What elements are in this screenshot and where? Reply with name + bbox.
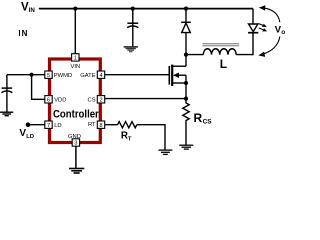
svg-text:R: R xyxy=(194,111,203,125)
svg-text:VDD: VDD xyxy=(54,98,66,104)
svg-text:LD: LD xyxy=(26,134,34,140)
resistor RCS xyxy=(183,99,189,145)
label RT xyxy=(121,131,132,143)
wire down to capacitor C1 xyxy=(6,75,8,91)
node junction PWMD VDD xyxy=(30,73,34,77)
svg-text:7: 7 xyxy=(47,123,50,129)
svg-text:L: L xyxy=(220,57,227,71)
ground for RT xyxy=(158,150,172,154)
pin 3 GND xyxy=(68,134,81,147)
svg-text:RT: RT xyxy=(88,122,96,128)
svg-text:LD: LD xyxy=(54,123,61,129)
ground under RCS xyxy=(179,145,193,149)
arrow VO bottom arc xyxy=(258,37,280,57)
pin 8 RT xyxy=(88,121,105,129)
wire top VIN rail xyxy=(39,8,253,10)
wire pin2 CS to sense node xyxy=(105,98,186,100)
node junction on rail above pin1 xyxy=(73,7,77,11)
ground under C2 xyxy=(124,47,138,52)
node switch node junction xyxy=(184,53,188,57)
svg-text:T: T xyxy=(128,137,132,143)
svg-text:CS: CS xyxy=(88,98,96,104)
svg-text:CS: CS xyxy=(203,119,213,126)
pin 6 VDD xyxy=(45,96,67,104)
svg-text:1: 1 xyxy=(74,56,77,62)
node source junction xyxy=(184,81,188,85)
wire pin3 GND to ground xyxy=(75,146,77,168)
svg-text:4: 4 xyxy=(99,73,102,79)
wire RT to ground xyxy=(137,125,165,150)
pin 1 VIN xyxy=(70,54,80,70)
svg-text:PWMD: PWMD xyxy=(54,73,72,79)
wire inductor to output column xyxy=(236,54,253,56)
wire rail to pin1 VIN xyxy=(74,9,76,54)
svg-text:3: 3 xyxy=(74,141,77,147)
capacitor C1 xyxy=(1,88,12,112)
label VO xyxy=(275,25,285,36)
wire pin4 GATE to mosfet gate xyxy=(105,74,170,76)
pin 7 LD xyxy=(45,121,62,129)
wire rail to capacitor C2 xyxy=(132,9,134,26)
wire VLD terminal to pin7 LD xyxy=(28,124,45,126)
wire rail to diode cathode xyxy=(185,9,187,23)
svg-text:VIN: VIN xyxy=(70,64,80,70)
wire drain to switch node xyxy=(185,55,187,67)
svg-text:o: o xyxy=(281,29,285,36)
wire source down to CS node xyxy=(185,83,187,99)
wire switch node to inductor xyxy=(186,54,203,56)
wire junction down to pin6 VDD xyxy=(32,75,45,100)
node junction on rail above diode D1 xyxy=(184,7,188,11)
svg-text:GATE: GATE xyxy=(80,73,95,79)
pin 5 PWMD xyxy=(45,71,72,79)
controller U1 body xyxy=(50,59,101,143)
label RCS xyxy=(194,111,213,126)
svg-text:IN: IN xyxy=(18,29,28,38)
resistor RT xyxy=(118,122,137,128)
diode D1 freewheeling xyxy=(181,22,191,32)
node CS junction xyxy=(184,97,188,101)
svg-text:IN: IN xyxy=(29,7,36,14)
wire pin8 RT to resistor xyxy=(105,124,118,126)
svg-text:GND: GND xyxy=(68,134,81,140)
capacitor C2 input xyxy=(127,23,138,46)
svg-text:8: 8 xyxy=(99,123,102,129)
svg-text:5: 5 xyxy=(47,73,50,79)
node junction on rail above input cap xyxy=(131,7,135,11)
pin 2 CS xyxy=(88,96,105,104)
svg-text:6: 6 xyxy=(47,98,50,104)
svg-text:2: 2 xyxy=(99,98,102,104)
svg-text:Controller: Controller xyxy=(53,109,99,121)
ground under pin3 xyxy=(69,169,84,174)
label L xyxy=(220,57,227,71)
label VLD xyxy=(19,128,34,140)
LED D2 xyxy=(248,24,267,33)
wire diode anode to switch node xyxy=(185,33,187,55)
label IN stray xyxy=(18,29,28,38)
arrow VO top arc xyxy=(259,5,280,22)
transistor Q1 mosfet xyxy=(169,65,186,86)
pin 4 GATE xyxy=(80,71,104,79)
wire output column right side xyxy=(252,9,254,56)
label VIN xyxy=(21,2,35,14)
ground under C1 xyxy=(0,112,13,116)
wire pin5 PWMD to left xyxy=(7,74,45,76)
inductor L1 xyxy=(202,44,239,55)
node VLD terminal xyxy=(26,122,31,127)
